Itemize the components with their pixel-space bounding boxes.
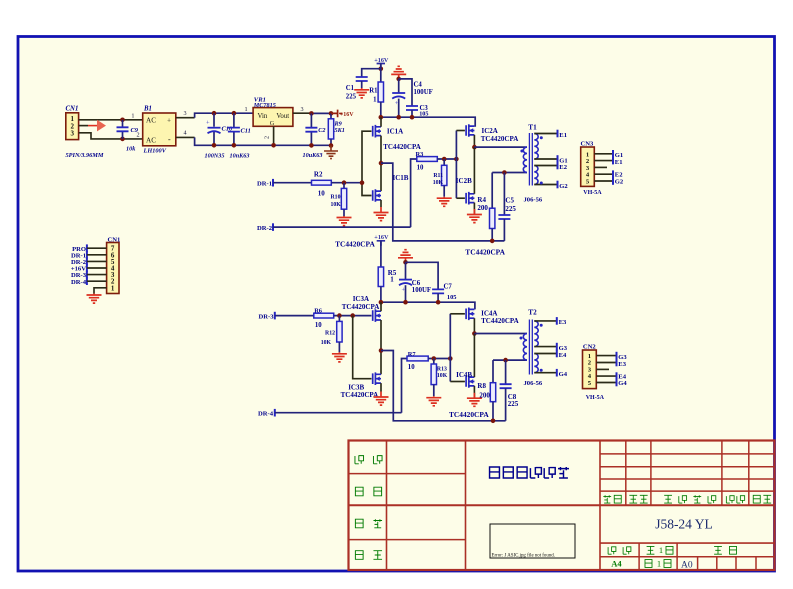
svg-text:10uK63: 10uK63 bbox=[303, 152, 323, 159]
svg-text:1: 1 bbox=[111, 284, 115, 292]
svg-text:IC4B: IC4B bbox=[456, 371, 472, 379]
port G3 bbox=[556, 343, 558, 351]
junction gate bus ch2b bbox=[448, 356, 453, 361]
power port +16V (psu) bbox=[331, 110, 338, 118]
svg-text:VH-5A: VH-5A bbox=[583, 190, 602, 196]
junction C6 node bbox=[403, 260, 408, 265]
wire +16V bus ch2 bbox=[381, 302, 475, 309]
svg-text:A4: A4 bbox=[611, 558, 622, 568]
svg-text:1: 1 bbox=[131, 113, 134, 120]
svg-text:100UF: 100UF bbox=[412, 287, 431, 294]
svg-text:DR-1: DR-1 bbox=[257, 180, 272, 187]
junction C11 top bbox=[232, 111, 237, 116]
ground R11 bbox=[437, 197, 452, 207]
resistor R1 bbox=[378, 82, 383, 102]
wire IC3A drain bbox=[380, 302, 382, 311]
svg-text:+: + bbox=[395, 100, 399, 107]
svg-text:LH100V: LH100V bbox=[143, 148, 167, 155]
svg-text:TC4420CPA: TC4420CPA bbox=[383, 143, 421, 151]
svg-text:C2: C2 bbox=[318, 127, 325, 134]
junction gate bus ch1b bbox=[454, 157, 459, 162]
wire IC3B source bbox=[380, 383, 382, 391]
svg-text:100N35: 100N35 bbox=[205, 153, 225, 160]
wire R3 to gates ch1b bbox=[437, 158, 456, 160]
svg-text:AC: AC bbox=[146, 136, 156, 144]
junction R4 bottom bbox=[490, 239, 495, 244]
svg-text:IC1B: IC1B bbox=[393, 174, 409, 182]
ground C1 bbox=[354, 88, 369, 98]
wire IC1A drain bbox=[380, 117, 382, 127]
wire R8 top to T2 bbox=[493, 359, 527, 361]
wire IC4 gate bus bbox=[449, 314, 451, 382]
svg-text:TC4420CPA: TC4420CPA bbox=[341, 391, 379, 399]
svg-text:TC4420CPA: TC4420CPA bbox=[335, 240, 375, 249]
svg-text:C11: C11 bbox=[241, 128, 251, 135]
svg-text:IC2B: IC2B bbox=[456, 177, 472, 185]
wire IC2B drain bbox=[473, 147, 475, 194]
junction C11 bottom bbox=[232, 143, 237, 148]
junction R12 top bbox=[337, 313, 342, 318]
svg-text:E1: E1 bbox=[615, 159, 623, 166]
capacitor C2 10uK63 bbox=[310, 113, 312, 127]
capacitor C3 105 bbox=[406, 106, 418, 110]
port G3 cn2 bbox=[616, 352, 618, 360]
port E3 bbox=[556, 317, 558, 325]
svg-text:TC4420CPA: TC4420CPA bbox=[481, 317, 519, 325]
svg-text:E3: E3 bbox=[618, 361, 626, 368]
svg-text:3: 3 bbox=[184, 110, 187, 117]
svg-text:CN1: CN1 bbox=[66, 106, 79, 113]
wire to C1 bbox=[362, 69, 381, 77]
mosfet IC2A bbox=[466, 124, 474, 137]
wire VR1.3 out bbox=[293, 112, 312, 114]
svg-text:G: G bbox=[270, 120, 275, 127]
resistor R9 5K1 bbox=[330, 113, 332, 118]
port G4 bbox=[556, 369, 558, 377]
svg-text:1: 1 bbox=[390, 276, 394, 284]
svg-text:DR-4: DR-4 bbox=[71, 279, 87, 286]
capacitor C7 105 bbox=[432, 289, 444, 293]
svg-text:10K: 10K bbox=[433, 180, 444, 186]
wire IC3A source to IC3B drain bbox=[380, 320, 382, 374]
svg-text:1: 1 bbox=[659, 545, 663, 555]
capacitor C1 225 bbox=[356, 77, 368, 81]
wire IC1A source to IC1B drain bbox=[380, 136, 382, 192]
title row labels bbox=[355, 455, 364, 464]
svg-text:R2: R2 bbox=[314, 170, 323, 178]
junction C9 top bbox=[120, 118, 125, 123]
svg-text:Error: J ASIC.jpg file not fou: Error: J ASIC.jpg file not found. bbox=[492, 554, 555, 559]
junction C10 top bbox=[212, 111, 217, 116]
T2 primary winding bbox=[523, 334, 527, 361]
svg-text:10: 10 bbox=[417, 164, 424, 171]
svg-text:C7: C7 bbox=[444, 284, 453, 291]
svg-text:10K: 10K bbox=[437, 373, 448, 379]
capacitor C5 225 bbox=[503, 173, 505, 216]
svg-text:TC4420CPA: TC4420CPA bbox=[449, 410, 489, 419]
wire R2 to gates bbox=[331, 182, 362, 184]
svg-text:1: 1 bbox=[245, 106, 248, 113]
svg-text:5PIN/3.96MM: 5PIN/3.96MM bbox=[66, 152, 104, 159]
wire +16V to R5 bbox=[380, 241, 382, 267]
svg-text:1: 1 bbox=[657, 558, 661, 568]
junction gate node ch2 bbox=[350, 313, 355, 318]
svg-text:MC7815: MC7815 bbox=[253, 102, 276, 109]
svg-text:TC4420CPA: TC4420CPA bbox=[465, 247, 505, 256]
resistor R4 200 bbox=[491, 173, 493, 209]
svg-text:225: 225 bbox=[508, 400, 519, 408]
svg-text:Vin: Vin bbox=[258, 113, 268, 120]
svg-text:A0: A0 bbox=[681, 560, 693, 570]
svg-text:VH-5A: VH-5A bbox=[586, 395, 605, 401]
wire DR-1 to R2 bbox=[273, 182, 312, 184]
resistor R8 200 bbox=[492, 360, 494, 383]
wire B1.3 to VR1.1 bbox=[176, 117, 195, 119]
port E4 bbox=[556, 350, 558, 358]
svg-text:G2: G2 bbox=[559, 183, 568, 190]
ground above C6 (inverted) bbox=[398, 250, 413, 263]
svg-text:Vout: Vout bbox=[276, 113, 289, 120]
port E4 cn2 bbox=[616, 372, 618, 380]
svg-text:E4: E4 bbox=[559, 352, 567, 359]
mosfet IC4A bbox=[466, 308, 474, 321]
capacitor C8 225 bbox=[505, 360, 507, 384]
wire C6 node to C7 bbox=[406, 262, 439, 289]
power port +16V (ch2) bbox=[377, 241, 385, 246]
svg-text:E2: E2 bbox=[559, 164, 567, 171]
svg-text:R12: R12 bbox=[325, 331, 335, 337]
junction R8 bottom bbox=[491, 419, 496, 424]
junction R13 top bbox=[432, 356, 437, 361]
svg-text:+16V: +16V bbox=[374, 57, 389, 64]
wire ch2 low output bbox=[381, 351, 506, 421]
junction output ch2 bbox=[379, 348, 384, 353]
wire IC4A source bbox=[473, 318, 475, 333]
svg-text:J58-24 YL: J58-24 YL bbox=[655, 517, 713, 532]
port G1 cn3 bbox=[612, 150, 614, 158]
svg-text:E1: E1 bbox=[559, 132, 567, 139]
junction C9 bottom bbox=[120, 137, 125, 142]
wire DR-1 gate feed bbox=[362, 131, 372, 183]
svg-text:E3: E3 bbox=[559, 319, 567, 326]
capacitor C4 100UF bbox=[398, 79, 400, 93]
port G4 cn2 bbox=[616, 379, 618, 387]
connector CN2 bbox=[583, 350, 597, 389]
svg-text:IC3A: IC3A bbox=[353, 295, 369, 303]
wire ch1 low output bbox=[381, 163, 504, 241]
svg-text:C4: C4 bbox=[414, 82, 423, 89]
T1 primary winding bbox=[523, 147, 527, 172]
wire gate branch ch2 bbox=[353, 316, 372, 379]
port E2 bbox=[557, 162, 559, 170]
svg-text:R1: R1 bbox=[369, 88, 378, 95]
junction bus R5 bbox=[379, 300, 384, 305]
svg-text:TC4420CPA: TC4420CPA bbox=[342, 303, 380, 311]
mosfet IC1B bbox=[373, 189, 381, 202]
junction C4 node bbox=[396, 77, 401, 82]
svg-text:10: 10 bbox=[318, 190, 326, 198]
capacitor C10 100N35 bbox=[213, 113, 215, 127]
resistor R13 10K bbox=[433, 359, 435, 365]
junction C10 bottom bbox=[212, 143, 217, 148]
svg-text:G4: G4 bbox=[559, 371, 568, 378]
junction output ch1 bbox=[379, 161, 384, 166]
wire DR-3 to R6 bbox=[275, 315, 314, 317]
T1 secondary winding 2 bbox=[534, 166, 538, 185]
power port +16V (ch1) bbox=[377, 64, 385, 69]
wire IC1B source bbox=[380, 200, 382, 207]
svg-text:-: - bbox=[168, 135, 171, 144]
svg-text:10: 10 bbox=[408, 364, 415, 371]
ground above C4 (inverted) bbox=[391, 66, 406, 79]
wire +16V bus ch1 bbox=[381, 117, 475, 127]
resistor R11 10K bbox=[443, 159, 445, 165]
junction C2 bottom bbox=[309, 143, 314, 148]
junction IC2 output bbox=[472, 145, 477, 150]
junction R11 top bbox=[442, 157, 447, 162]
svg-text:G4: G4 bbox=[618, 380, 627, 387]
svg-text:DR-4: DR-4 bbox=[258, 410, 274, 417]
svg-text:R8: R8 bbox=[477, 382, 486, 390]
svg-text:100UF: 100UF bbox=[414, 89, 433, 96]
resistor R7 bbox=[407, 356, 428, 361]
svg-text:R4: R4 bbox=[477, 196, 486, 204]
resistor R6 bbox=[314, 313, 334, 318]
mosfet IC3B bbox=[373, 372, 381, 385]
resistor R3 bbox=[417, 157, 438, 162]
red arrow marker bbox=[88, 125, 97, 127]
svg-text:CN2: CN2 bbox=[583, 344, 597, 351]
schematic title 驱动板原理图 bbox=[490, 467, 500, 478]
wire +16V to R1 bbox=[380, 64, 382, 83]
ground IC3B bbox=[374, 392, 389, 406]
wire IC4B drain bbox=[473, 334, 475, 378]
ground IC2B bbox=[467, 209, 482, 223]
svg-text:+: + bbox=[206, 119, 210, 126]
junction gate node ch1 bbox=[360, 180, 365, 185]
ground R10 bbox=[337, 216, 352, 226]
T1 core bbox=[528, 133, 530, 186]
svg-text:T2: T2 bbox=[528, 309, 537, 317]
svg-text:C1: C1 bbox=[346, 85, 355, 92]
mosfet IC1A bbox=[373, 125, 381, 138]
svg-text:C5: C5 bbox=[505, 197, 514, 205]
junction bus C4 bbox=[396, 115, 401, 120]
connector CN1 (3 pin) bbox=[66, 113, 79, 140]
ground R13 bbox=[426, 396, 441, 406]
wire IC2 out to T1 bbox=[474, 146, 527, 148]
svg-text:R3: R3 bbox=[416, 151, 424, 158]
wire R6 to gates bbox=[334, 315, 372, 317]
wire B1.4 to gnd rail bbox=[176, 136, 195, 138]
ground IC4B bbox=[467, 393, 482, 407]
port E3 cn2 bbox=[616, 359, 618, 367]
svg-text:10K: 10K bbox=[321, 340, 332, 346]
svg-text:225: 225 bbox=[505, 205, 516, 213]
T2 core bbox=[528, 320, 530, 375]
junction C8 top bbox=[503, 358, 508, 363]
svg-text:5K1: 5K1 bbox=[335, 127, 345, 134]
image placeholder box bbox=[490, 524, 575, 558]
wire C4 node to C3 bbox=[399, 79, 412, 106]
resistor R10 10K bbox=[343, 183, 345, 189]
wires CN2 pins bbox=[596, 355, 616, 357]
ground CN1 bbox=[87, 294, 102, 304]
junction C5 top bbox=[502, 170, 507, 175]
wire R4 top to T1 bbox=[492, 172, 527, 174]
wire DR-2 to R3 bbox=[273, 226, 411, 228]
junction R9 bottom bbox=[329, 143, 334, 148]
junction R10 top bbox=[342, 180, 347, 185]
svg-text:+: + bbox=[167, 117, 171, 125]
wire CN1.2 stub bbox=[79, 125, 88, 127]
wire IC2B source bbox=[473, 203, 475, 215]
wire CN1.3 to B1.2 bbox=[79, 133, 143, 139]
svg-text:225: 225 bbox=[346, 94, 357, 101]
resistor R2 bbox=[312, 180, 332, 185]
module B1 LH100V bbox=[143, 113, 176, 146]
svg-text:CN1: CN1 bbox=[108, 236, 121, 243]
wire CN1.1 to B1.1 bbox=[79, 119, 143, 121]
svg-text:G2: G2 bbox=[615, 178, 624, 185]
svg-text:2: 2 bbox=[264, 136, 271, 139]
port E2 cn3 bbox=[612, 170, 614, 178]
svg-text:4: 4 bbox=[184, 130, 187, 137]
svg-text:J06-56: J06-56 bbox=[524, 380, 543, 387]
T1 secondary winding 1 bbox=[534, 134, 538, 160]
wire IC4B source bbox=[473, 386, 475, 398]
svg-text:B1: B1 bbox=[143, 106, 152, 113]
svg-text:IC2A: IC2A bbox=[482, 127, 498, 135]
port E1 cn3 bbox=[612, 157, 614, 165]
svg-text:3: 3 bbox=[301, 106, 304, 113]
junction R9 top bbox=[329, 111, 334, 116]
connector CN3 bbox=[581, 147, 595, 186]
svg-text:R7: R7 bbox=[408, 351, 417, 358]
wire IC4 out to T2 bbox=[474, 333, 527, 335]
wire DR-4 to R7 bbox=[275, 412, 402, 414]
svg-text:10K: 10K bbox=[331, 202, 342, 208]
svg-text:T1: T1 bbox=[528, 124, 537, 132]
capacitor C11 10nK63 bbox=[233, 113, 235, 127]
wire CN1.1 to ground bbox=[94, 288, 107, 294]
svg-text:+16V: +16V bbox=[374, 234, 389, 241]
port G1 bbox=[557, 155, 559, 163]
svg-text:200: 200 bbox=[479, 392, 490, 400]
mosfet IC3A bbox=[373, 309, 381, 322]
ground R12 bbox=[332, 352, 347, 362]
port E1 bbox=[557, 130, 559, 138]
svg-text:R6: R6 bbox=[314, 307, 323, 314]
svg-text:AC: AC bbox=[146, 117, 156, 125]
capacitor C9 bbox=[122, 120, 124, 128]
junction C2 top bbox=[309, 111, 314, 116]
svg-text:TC4420CPA: TC4420CPA bbox=[481, 135, 519, 143]
junction bus C7 bbox=[436, 300, 441, 305]
capacitor C6 100UF bbox=[405, 262, 407, 279]
svg-text:J06-56: J06-56 bbox=[524, 196, 543, 203]
svg-text:200: 200 bbox=[477, 204, 488, 212]
svg-text:+16V: +16V bbox=[340, 112, 354, 118]
svg-text:R10: R10 bbox=[331, 194, 341, 200]
svg-text:1: 1 bbox=[373, 97, 377, 104]
svg-text:10k: 10k bbox=[126, 146, 136, 153]
title block grid bbox=[349, 441, 775, 571]
port G2 bbox=[557, 181, 559, 189]
junction VR1.2 rail bbox=[271, 143, 276, 148]
earth ground (psu) bbox=[324, 146, 338, 159]
T2 secondary winding 2 bbox=[534, 354, 538, 373]
wire IC2 gate bus bbox=[455, 131, 457, 199]
wires CN3 pins bbox=[594, 153, 613, 155]
svg-text:10nK63: 10nK63 bbox=[230, 153, 250, 160]
resistor R5 bbox=[378, 267, 383, 287]
svg-text:+: + bbox=[402, 287, 406, 294]
T2 secondary winding 1 bbox=[534, 321, 538, 347]
sheet info row bbox=[608, 546, 616, 554]
regulator VR1 MC7815 bbox=[253, 108, 293, 127]
svg-text:2: 2 bbox=[137, 132, 140, 139]
ground IC1B bbox=[374, 207, 389, 221]
junction +16V node bbox=[379, 66, 384, 71]
svg-text:10: 10 bbox=[315, 322, 322, 329]
svg-text:IC1A: IC1A bbox=[387, 128, 403, 136]
svg-text:DR-2: DR-2 bbox=[257, 225, 273, 232]
svg-text:CN3: CN3 bbox=[581, 141, 595, 148]
junction bus C3 bbox=[410, 115, 415, 120]
svg-text:105: 105 bbox=[447, 294, 457, 301]
svg-text:R11: R11 bbox=[433, 173, 443, 179]
mosfet IC4B bbox=[466, 375, 474, 388]
resistor R12 10K bbox=[338, 316, 340, 322]
wire VR1.2 to rail bbox=[273, 126, 275, 145]
wire IC2A source bbox=[473, 135, 475, 147]
mosfet IC2B bbox=[466, 192, 474, 205]
svg-text:R13: R13 bbox=[437, 367, 447, 373]
svg-text:3: 3 bbox=[70, 130, 74, 138]
revision header row bbox=[603, 495, 611, 503]
junction IC4 output bbox=[472, 331, 477, 336]
svg-text:DR-3: DR-3 bbox=[258, 313, 274, 320]
port G2 cn3 bbox=[612, 177, 614, 185]
wire R7 to gates ch2b bbox=[428, 358, 450, 360]
junction bus R1 bbox=[379, 115, 384, 120]
connector CN1 (7 pin) bbox=[107, 243, 119, 294]
junction bus C6 bbox=[403, 300, 408, 305]
